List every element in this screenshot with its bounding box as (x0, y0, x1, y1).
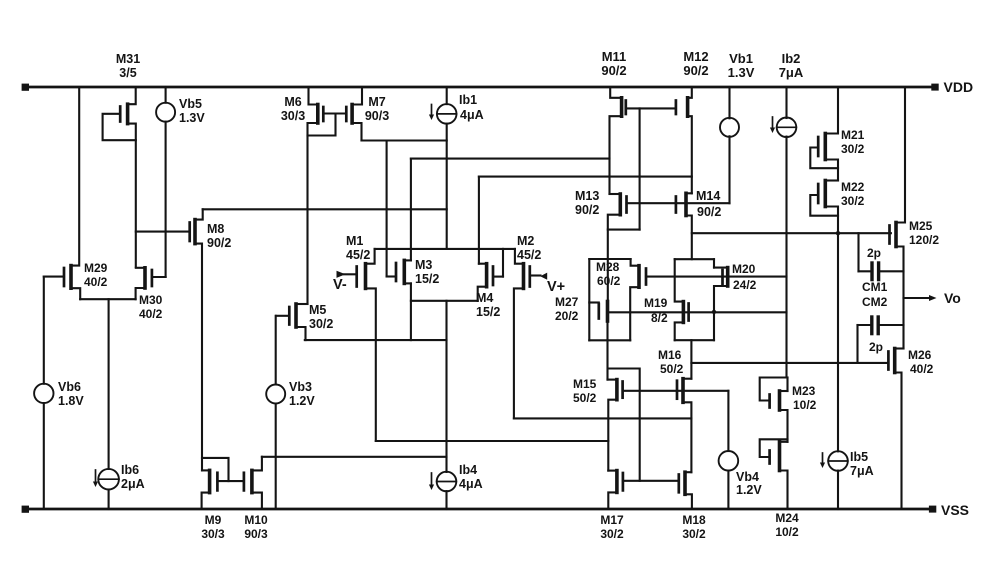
svg-text:Ib4: Ib4 (459, 463, 477, 477)
svg-text:7μA: 7μA (779, 65, 804, 80)
svg-text:50/2: 50/2 (660, 362, 684, 376)
svg-text:60/2: 60/2 (597, 274, 621, 288)
svg-text:30/2: 30/2 (309, 317, 333, 331)
svg-text:M18: M18 (682, 513, 706, 527)
svg-text:Vb5: Vb5 (179, 97, 202, 111)
svg-text:M5: M5 (309, 303, 326, 317)
svg-text:2p: 2p (869, 340, 883, 354)
svg-text:4μA: 4μA (459, 477, 483, 491)
svg-text:M21: M21 (841, 128, 865, 142)
svg-text:7μA: 7μA (850, 464, 874, 478)
svg-text:M28: M28 (596, 260, 620, 274)
svg-text:30/2: 30/2 (600, 527, 624, 541)
svg-text:2p: 2p (867, 246, 881, 260)
svg-text:M20: M20 (732, 262, 756, 276)
svg-text:30/2: 30/2 (841, 142, 865, 156)
svg-text:50/2: 50/2 (573, 391, 597, 405)
svg-text:15/2: 15/2 (415, 272, 439, 286)
svg-text:24/2: 24/2 (733, 278, 757, 292)
svg-text:Vo: Vo (944, 290, 961, 306)
svg-text:M22: M22 (841, 180, 865, 194)
svg-text:Vb4: Vb4 (736, 470, 759, 484)
svg-text:10/2: 10/2 (793, 398, 817, 412)
svg-text:30/2: 30/2 (841, 194, 865, 208)
svg-text:M7: M7 (368, 95, 385, 109)
svg-text:90/2: 90/2 (575, 203, 599, 217)
svg-text:V-: V- (333, 277, 347, 293)
svg-text:Ib1: Ib1 (459, 93, 477, 107)
svg-text:M17: M17 (600, 513, 624, 527)
svg-text:M6: M6 (284, 95, 301, 109)
svg-text:M24: M24 (775, 511, 799, 525)
svg-text:Ib2: Ib2 (782, 51, 801, 66)
svg-text:M13: M13 (575, 189, 599, 203)
svg-text:M10: M10 (244, 513, 268, 527)
svg-text:Ib6: Ib6 (121, 463, 139, 477)
svg-text:M16: M16 (658, 348, 682, 362)
svg-text:90/3: 90/3 (365, 109, 389, 123)
svg-text:V+: V+ (547, 279, 565, 295)
svg-text:M3: M3 (415, 258, 432, 272)
svg-text:3/5: 3/5 (119, 66, 136, 80)
svg-text:90/3: 90/3 (244, 527, 268, 541)
svg-text:M2: M2 (517, 234, 534, 248)
svg-text:M12: M12 (683, 49, 708, 64)
svg-text:M11: M11 (602, 49, 627, 64)
svg-text:1.3V: 1.3V (728, 65, 755, 80)
svg-text:90/2: 90/2 (207, 236, 231, 250)
svg-text:2μA: 2μA (121, 477, 145, 491)
svg-text:M30: M30 (139, 293, 163, 307)
svg-text:45/2: 45/2 (346, 248, 370, 262)
svg-text:40/2: 40/2 (84, 275, 108, 289)
svg-text:VDD: VDD (944, 79, 974, 95)
svg-text:90/2: 90/2 (683, 63, 708, 78)
svg-text:90/2: 90/2 (601, 63, 626, 78)
svg-text:40/2: 40/2 (139, 307, 163, 321)
svg-text:Vb6: Vb6 (58, 380, 81, 394)
svg-text:M1: M1 (346, 234, 363, 248)
svg-text:M8: M8 (207, 222, 224, 236)
svg-text:90/2: 90/2 (697, 205, 721, 219)
svg-text:1.2V: 1.2V (736, 483, 762, 497)
svg-text:M15: M15 (573, 377, 597, 391)
svg-text:20/2: 20/2 (555, 309, 579, 323)
svg-text:CM2: CM2 (862, 295, 888, 309)
svg-text:M14: M14 (696, 189, 720, 203)
svg-text:M31: M31 (116, 52, 140, 66)
svg-text:30/3: 30/3 (281, 109, 305, 123)
svg-text:8/2: 8/2 (651, 311, 668, 325)
svg-text:4μA: 4μA (460, 108, 484, 122)
svg-text:1.2V: 1.2V (289, 394, 315, 408)
svg-text:M23: M23 (792, 384, 816, 398)
svg-text:120/2: 120/2 (909, 233, 939, 247)
svg-text:M9: M9 (205, 513, 222, 527)
svg-text:M19: M19 (644, 296, 668, 310)
svg-text:1.3V: 1.3V (179, 111, 205, 125)
svg-text:15/2: 15/2 (476, 305, 500, 319)
svg-text:Ib5: Ib5 (850, 450, 868, 464)
svg-text:45/2: 45/2 (517, 248, 541, 262)
svg-text:30/3: 30/3 (201, 527, 225, 541)
svg-text:Vb1: Vb1 (729, 51, 753, 66)
svg-text:40/2: 40/2 (910, 362, 934, 376)
svg-text:CM1: CM1 (862, 280, 888, 294)
svg-text:10/2: 10/2 (775, 525, 799, 539)
svg-text:30/2: 30/2 (682, 527, 706, 541)
svg-text:M27: M27 (555, 295, 579, 309)
svg-text:M26: M26 (908, 348, 932, 362)
svg-text:Vb3: Vb3 (289, 380, 312, 394)
svg-text:VSS: VSS (941, 502, 969, 518)
svg-text:M4: M4 (476, 291, 493, 305)
svg-text:M25: M25 (909, 219, 933, 233)
svg-text:M29: M29 (84, 261, 108, 275)
svg-text:1.8V: 1.8V (58, 394, 84, 408)
